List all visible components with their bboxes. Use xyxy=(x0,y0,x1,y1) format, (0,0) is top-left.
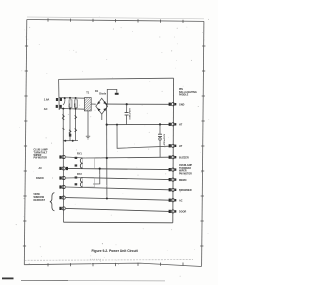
svg-text:Figure 9-2. Power Unit Circuit: Figure 9-2. Power Unit Circuit xyxy=(92,249,139,253)
wire left pins bus xyxy=(62,109,64,223)
wire AC upper xyxy=(59,97,84,100)
J hook wire xyxy=(63,98,65,105)
ground blob top xyxy=(115,93,119,95)
right pin HT xyxy=(169,123,177,126)
right label block overlamp xyxy=(179,164,192,175)
svg-text:BROWNER: BROWNER xyxy=(179,189,192,192)
primary box Z1 xyxy=(69,100,72,108)
svg-text:DOOR: DOOR xyxy=(179,211,186,214)
bottom margin line xyxy=(21,279,68,281)
relay RY2 xyxy=(75,176,95,187)
svg-text:BUZZER: BUZZER xyxy=(179,156,189,159)
wire right bus vertical xyxy=(172,78,175,223)
wire comp leg b xyxy=(75,109,77,141)
svg-text:PW MOTOR: PW MOTOR xyxy=(179,173,192,175)
left pin 4 xyxy=(59,185,65,188)
wire HT2 drop xyxy=(117,125,169,149)
left pin 6 xyxy=(59,207,65,210)
scan speckle xyxy=(16,16,209,276)
frame tick marks xyxy=(23,18,206,266)
svg-text:AC: AC xyxy=(44,107,48,111)
right pin browner xyxy=(169,188,177,191)
wire door xyxy=(66,208,170,211)
primary box Z2 xyxy=(75,100,78,108)
svg-text:PW MOTOR: PW MOTOR xyxy=(34,157,48,160)
transformer T1 xyxy=(84,98,91,111)
left pin 3 xyxy=(59,176,65,179)
brace 500w group xyxy=(50,193,55,211)
capacitor C2 xyxy=(158,134,162,136)
svg-text:4700uF16V: 4700uF16V xyxy=(163,133,166,145)
svg-text:RADIO: RADIO xyxy=(36,177,44,180)
svg-text:DEFROST: DEFROST xyxy=(34,199,46,202)
right pin ac xyxy=(169,199,177,202)
svg-text:RY1: RY1 xyxy=(77,153,82,156)
svg-text:AC: AC xyxy=(39,167,43,170)
diode marks left cluster xyxy=(62,115,76,135)
right pins column xyxy=(169,103,177,213)
wire radio to RY2 xyxy=(66,177,83,179)
left label block 2 xyxy=(34,193,46,202)
paper background xyxy=(0,0,218,285)
svg-text:PADDLE: PADDLE xyxy=(179,94,189,97)
svg-text:MEMO: MEMO xyxy=(179,179,187,182)
left label block 1 xyxy=(34,149,48,160)
svg-text:WIPER: WIPER xyxy=(179,171,187,173)
wire cap2 branch xyxy=(159,124,161,134)
junction dots xyxy=(62,97,161,200)
svg-text:HT: HT xyxy=(179,124,183,127)
wire cap1 drop xyxy=(126,104,128,112)
wire transformer to bridge xyxy=(91,103,96,105)
svg-text:HT: HT xyxy=(179,145,183,148)
svg-text:AC: AC xyxy=(179,199,183,202)
svg-text:OVERLAMP: OVERLAMP xyxy=(179,164,192,167)
wire AC lower xyxy=(59,107,84,110)
wire join xyxy=(63,140,78,142)
wire browner xyxy=(66,187,170,190)
svg-text:1000uF25V: 1000uF25V xyxy=(130,108,132,120)
left pin 2 xyxy=(59,167,68,170)
wire memo xyxy=(83,178,170,180)
wire bridge top pi xyxy=(107,89,117,103)
wire HT rail xyxy=(106,123,169,125)
wire bridge bottom stub xyxy=(101,114,103,120)
svg-text:PIN: PIN xyxy=(179,89,183,91)
schematic wires xyxy=(59,78,174,223)
wire pin1 to RY1 xyxy=(66,156,83,159)
faint inner bottom rule xyxy=(25,259,194,262)
AC connector J2 xyxy=(56,105,58,108)
AC connector J1 xyxy=(56,98,62,108)
svg-text:RY2: RY2 xyxy=(77,173,82,176)
wire trafo bottom leg xyxy=(87,111,89,136)
relay RY1 xyxy=(75,157,95,169)
svg-text:BALL/LIGHTING: BALL/LIGHTING xyxy=(179,91,197,94)
wire top rail xyxy=(59,78,174,79)
svg-text:1.6A: 1.6A xyxy=(44,98,50,102)
svg-text:TURN/RAD: TURN/RAD xyxy=(179,167,191,170)
ground symbol trafo xyxy=(86,136,90,139)
right pin buzzer xyxy=(169,156,177,159)
bridge rectifier D1 xyxy=(96,98,108,114)
right pin door xyxy=(169,210,177,213)
page frame border xyxy=(24,20,204,267)
wire comp leg a xyxy=(69,109,71,141)
right top label block xyxy=(179,89,197,96)
svg-text:GND: GND xyxy=(179,103,185,106)
svg-text:ZNR: ZNR xyxy=(75,103,77,108)
wire DC rail xyxy=(108,103,170,105)
capacitor C1 xyxy=(125,113,129,115)
left pin 5 xyxy=(59,196,65,199)
faint outer top page edge xyxy=(27,17,204,19)
wire L branch xyxy=(93,169,100,184)
wire buzzer xyxy=(83,156,170,159)
speck row xyxy=(90,258,101,260)
right pin GND xyxy=(169,103,177,106)
wire bottom rail xyxy=(64,221,173,224)
svg-text:Diode: Diode xyxy=(99,93,107,96)
right pin overlamp xyxy=(169,168,177,171)
right pin HT2 xyxy=(169,144,177,147)
wire left AC vertical xyxy=(58,79,61,110)
wire mid vertical xyxy=(106,104,108,198)
wire ac right xyxy=(66,198,170,201)
wire overlamp long xyxy=(66,168,170,169)
right pin memo xyxy=(169,178,177,181)
left pin 1 xyxy=(59,155,68,210)
bottom margin dash xyxy=(2,278,14,280)
